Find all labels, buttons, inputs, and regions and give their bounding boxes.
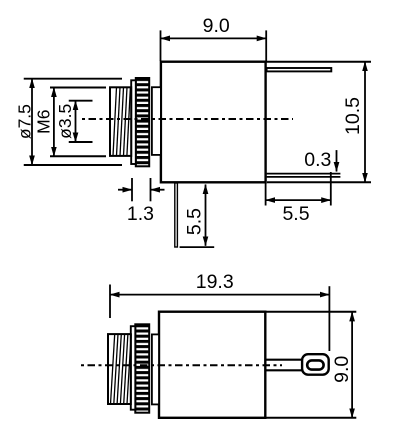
svg-text:9.0: 9.0: [331, 356, 353, 383]
svg-text:1.3: 1.3: [127, 203, 154, 225]
svg-text:5.5: 5.5: [282, 203, 309, 225]
svg-text:0.3: 0.3: [304, 149, 331, 171]
svg-text:M6: M6: [33, 110, 53, 134]
svg-text:9.0: 9.0: [203, 15, 230, 37]
svg-text:10.5: 10.5: [342, 97, 364, 135]
svg-text:ø3.5: ø3.5: [55, 104, 75, 139]
svg-text:19.3: 19.3: [196, 271, 234, 293]
svg-text:ø7.5: ø7.5: [15, 104, 35, 139]
svg-text:5.5: 5.5: [183, 208, 205, 235]
